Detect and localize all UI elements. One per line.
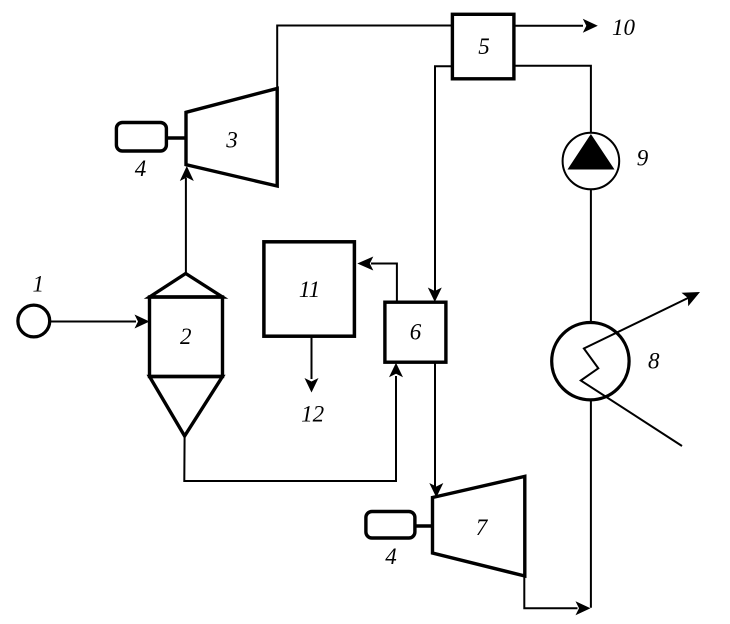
svg-text:8: 8 <box>648 348 660 373</box>
wire pump 9 to heat exchanger 8 <box>590 189 592 321</box>
block 11 <box>264 242 355 336</box>
wire block 11 to node 12 <box>311 336 313 379</box>
motor 4 (top) <box>116 123 166 152</box>
pump 9 <box>563 133 620 190</box>
heat exchanger 8 coil zigzag with inlet/outlet diagonals <box>581 298 689 447</box>
arrowhead node 12 <box>305 378 319 393</box>
arrowhead into block 6 top <box>428 288 442 303</box>
svg-text:2: 2 <box>180 324 192 349</box>
arrowhead into block 6 bottom <box>389 363 403 378</box>
wire block 6 to block 11 <box>371 264 397 303</box>
shaft motor 4 to turbine 7 <box>415 524 433 528</box>
wire turbine 7 exhaust to riser <box>524 576 577 608</box>
arrowhead into riser <box>576 601 591 615</box>
shaft motor 4 to turbine 3 <box>166 136 186 140</box>
svg-text:7: 7 <box>476 515 489 540</box>
arrowhead into turbine 7 <box>429 483 443 498</box>
svg-text:11: 11 <box>299 277 320 302</box>
svg-text:6: 6 <box>410 320 422 345</box>
wire turbine 3 to block 5 <box>277 26 452 91</box>
svg-text:4: 4 <box>385 544 397 569</box>
arrowhead into turbine 3 <box>180 166 194 181</box>
wire 1 to vessel 2 <box>51 321 136 323</box>
svg-text:12: 12 <box>301 402 324 427</box>
svg-text:4: 4 <box>135 156 147 181</box>
heat exchanger 8 circle <box>552 323 629 400</box>
pump 9 impeller triangle <box>568 134 615 170</box>
wire block 5 to node 10 <box>514 25 583 27</box>
arrowhead into vessel 2 <box>135 315 150 329</box>
svg-text:3: 3 <box>225 128 238 153</box>
svg-text:1: 1 <box>33 272 45 297</box>
node 1 source circle <box>18 305 50 337</box>
svg-text:5: 5 <box>478 34 490 59</box>
wire vessel 2 top to turbine 3 <box>185 178 187 274</box>
wire block 6 down to turbine 7 <box>434 362 436 487</box>
arrowhead heating stream out <box>682 292 701 306</box>
wire vessel 2 bottom to block 6 <box>184 376 396 481</box>
vessel 2 body <box>150 274 223 437</box>
wire heat exchanger 8 down to condensate return <box>590 401 592 608</box>
arrowhead into block 11 <box>357 257 373 271</box>
turbine 7 <box>433 476 525 576</box>
svg-text:9: 9 <box>637 146 649 171</box>
wire block 5 right to pump 9 <box>513 66 591 133</box>
wire block 5 down to block 6 <box>435 66 454 292</box>
svg-text:10: 10 <box>612 15 636 40</box>
motor 4 (bottom) <box>366 512 415 539</box>
block 6 <box>385 302 446 362</box>
block 5 <box>452 14 514 79</box>
turbine 3 <box>186 89 277 187</box>
arrowhead node 10 <box>583 19 598 33</box>
